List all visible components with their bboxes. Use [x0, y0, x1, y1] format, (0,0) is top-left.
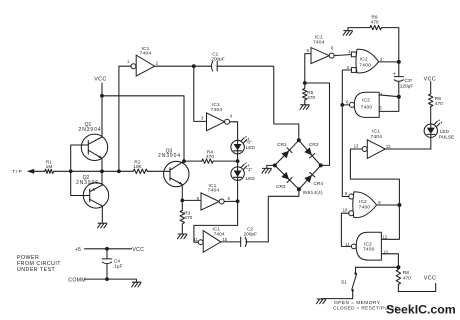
svg-text:13: 13 [354, 144, 359, 149]
node TIP input [12, 169, 45, 175]
ground bridge left [262, 168, 271, 173]
junction inverter1 input rail [117, 169, 121, 173]
capacitor C2 200pF [241, 227, 257, 247]
ground S1 [316, 299, 325, 304]
junction +5 node [105, 247, 109, 251]
resistor R6 470 [429, 94, 444, 107]
junction Q3 emitter node [180, 199, 184, 203]
svg-text:10K: 10K [133, 164, 142, 170]
wire gate1 output [379, 61, 399, 63]
wire LED1 to inverter4 output node [237, 180, 239, 201]
wire junction to R4 [184, 160, 202, 162]
power VCC label top left [94, 76, 106, 96]
svg-text:7404: 7404 [208, 188, 220, 194]
power VCC top right [424, 76, 436, 94]
svg-text:.1μF: .1μF [113, 264, 123, 269]
junction bridge bottom [297, 187, 301, 191]
junction bridge right [319, 163, 323, 167]
junction COMM node [105, 277, 109, 281]
resistor R3 470 [180, 211, 193, 224]
svg-text:PULSE: PULSE [439, 134, 454, 139]
junction emitters [100, 169, 104, 173]
wire emitter node to R3 [181, 200, 183, 210]
junction inverter1 output [192, 64, 196, 68]
svg-text:11: 11 [194, 237, 199, 242]
svg-text:C3*: C3* [405, 78, 413, 83]
wire R1 to node A [54, 170, 71, 172]
resistor R5 470 [303, 83, 316, 104]
svg-text:CR1: CR1 [277, 142, 287, 148]
wire VCC rail to Q3 collector [102, 96, 184, 161]
op-amp IC1 inverter 5-6 [307, 34, 335, 63]
svg-text:12: 12 [382, 234, 387, 239]
svg-text:+5: +5 [75, 247, 81, 253]
svg-text:120μF: 120μF [400, 84, 414, 89]
svg-text:12: 12 [386, 144, 391, 149]
svg-text:IC2: IC2 [362, 98, 370, 104]
op-amp IC1 inverter 9-8 [197, 183, 231, 210]
svg-text:R6: R6 [435, 96, 441, 102]
wire R8 to VCC [398, 283, 435, 291]
wire R9 to ground [348, 28, 370, 31]
wire emitter node to inverter4 input [182, 199, 201, 201]
wire inverter6 input to latch node [350, 149, 399, 239]
svg-text:VCC: VCC [132, 247, 144, 253]
node A junction [69, 169, 73, 173]
NAND gate IC2 pins 4,5,6 mirrored [346, 92, 383, 118]
svg-text:CR4: CR4 [313, 181, 323, 187]
wire C1 to bridge top [217, 66, 299, 140]
svg-text:LED: LED [246, 176, 256, 181]
wire C2 to bridge bottom [246, 189, 299, 242]
wire bridge right to R5 node [305, 83, 330, 165]
ground R3 [178, 234, 187, 239]
wire Q1 emitter down [101, 158, 103, 171]
ground Q2 [98, 223, 107, 228]
diode CR3 [276, 172, 292, 190]
op-amp IC1 inverter 11-10 [194, 226, 228, 252]
transistor Q2 2N3906 [76, 175, 109, 208]
wire inverter4 output [224, 200, 237, 202]
svg-text:R8: R8 [403, 270, 409, 276]
wire inverter3 output to gate1 pin1 [334, 55, 351, 56]
svg-text:470: 470 [403, 276, 411, 282]
resistor R1 [45, 159, 54, 173]
wire node A to Q1 base [71, 145, 89, 171]
svg-text:200pF: 200pF [244, 232, 257, 237]
ground COMM [132, 282, 141, 287]
svg-text:IN914(4): IN914(4) [303, 190, 323, 195]
wire bridge left to ground [267, 165, 275, 168]
wire node up to inverter3 input [305, 54, 311, 83]
diode CR4 [304, 172, 323, 187]
wire emitter node to R2 [71, 170, 134, 172]
wire drop to inverter2 input [194, 66, 207, 121]
diode CR2 [304, 142, 319, 158]
NAND gate IC2 pins 9,10,8 [343, 191, 382, 217]
transistor Q1 2N3904 [79, 122, 108, 160]
ground R5 [300, 105, 309, 110]
wire latch to inverter5 input [194, 201, 238, 242]
capacitor C3 120uF [393, 62, 413, 97]
wire inverter6 output [385, 148, 431, 150]
svg-text:IC2: IC2 [360, 57, 368, 63]
svg-text:VCC: VCC [424, 276, 436, 282]
svg-text:TIP: TIP [12, 169, 23, 175]
wire inverter5 output to C2 [221, 241, 241, 243]
svg-text:7404: 7404 [211, 107, 223, 113]
op-amp IC1 inverter 13-12 [354, 129, 392, 159]
svg-text:"1": "1" [246, 167, 252, 172]
junction bridge top [297, 138, 301, 142]
power COMM input [68, 278, 136, 284]
wire R3 to ground [181, 224, 183, 234]
LED "0" [231, 136, 256, 154]
wire gate2 output to rail [342, 104, 349, 106]
switch S1 [321, 267, 398, 298]
svg-text:470: 470 [307, 95, 315, 101]
power +5 input [75, 247, 144, 253]
svg-text:CR3: CR3 [276, 184, 286, 190]
junction inverter4 output [236, 199, 240, 203]
svg-text:S1: S1 [341, 279, 347, 285]
NAND gate IC2 pins 1,2,3 [347, 49, 383, 73]
svg-text:OPEN = MEMORY: OPEN = MEMORY [334, 300, 381, 306]
svg-text:470: 470 [371, 19, 379, 25]
resistor R8 470 [396, 267, 411, 291]
junction bridge left [273, 163, 277, 167]
svg-text:VCC: VCC [94, 76, 106, 82]
resistor R2 10K [133, 160, 147, 174]
wire Q2 collector down [101, 206, 103, 223]
svg-text:"0": "0" [246, 139, 252, 144]
svg-text:CR2: CR2 [309, 142, 319, 148]
junction R5 node [303, 81, 307, 85]
svg-text:UNDER TEST: UNDER TEST [17, 267, 56, 273]
op-amp IC1 inverter 3-4 [201, 102, 233, 131]
wire R6 to LED PULSE [430, 107, 432, 125]
text switch legend [333, 300, 398, 311]
wire LED0 to LED1 [237, 154, 239, 167]
LED PULSE [424, 119, 454, 139]
NAND gate IC2 pins 12,13,11 mirrored [345, 232, 388, 260]
wire gate2 pin5 [379, 97, 399, 112]
LED "1" [231, 162, 255, 181]
svg-text:1M: 1M [46, 164, 53, 170]
junction Q3 collector VCC R4 [182, 159, 186, 163]
diode bridge arms [275, 140, 321, 189]
text POWER FROM CIRCUIT UNDER TEST [17, 255, 61, 273]
wire Q1 collector to VCC rail [101, 96, 103, 137]
resistor R4 470 [202, 149, 215, 163]
junction VCC node [100, 94, 104, 98]
svg-text:7400: 7400 [361, 105, 373, 111]
svg-text:7404: 7404 [313, 39, 325, 45]
svg-text:10: 10 [343, 208, 348, 213]
svg-text:+: + [393, 71, 396, 77]
wire Q2 emitter up [101, 171, 103, 185]
svg-text:7400: 7400 [359, 205, 371, 211]
capacitor C1 200pF [211, 52, 224, 71]
junction gate2 output [340, 103, 344, 107]
svg-text:2N3904: 2N3904 [158, 153, 181, 159]
wire R9 feedback top [382, 28, 399, 62]
capacitor C4 .1uF [102, 249, 122, 279]
wire LED PULSE to inverter6 output [430, 137, 432, 149]
svg-text:7400: 7400 [359, 62, 371, 68]
svg-text:7404: 7404 [214, 232, 225, 237]
wire Q3 emitter down [181, 185, 183, 201]
wire inverter1 output to C1 [155, 65, 212, 67]
svg-text:2N3904: 2N3904 [79, 127, 102, 133]
svg-text:200pF: 200pF [211, 56, 224, 61]
junction latch output node [397, 203, 401, 207]
svg-text:470: 470 [206, 154, 214, 160]
wire R2 to Q3 base [147, 170, 170, 172]
wire gate2 pin4 [379, 95, 399, 97]
wire gate1 pin2 rail down to gate3 pin9 [342, 70, 351, 197]
wire gate4 pin13 to switch node [381, 254, 398, 267]
svg-text:7404: 7404 [370, 134, 382, 140]
op-amp IC1 inverter 1-2 [127, 46, 159, 76]
svg-text:2N3906: 2N3906 [76, 180, 99, 186]
resistor R9 470 [370, 15, 381, 30]
wire inverter2 output to LED 0 [230, 122, 238, 141]
svg-text:SeekIC.com: SeekIC.com [386, 303, 456, 317]
svg-text:IC1: IC1 [372, 129, 380, 135]
svg-text:10: 10 [223, 237, 228, 242]
svg-text:VCC: VCC [424, 76, 436, 82]
svg-text:IC2: IC2 [359, 199, 367, 205]
svg-text:7404: 7404 [140, 51, 152, 57]
svg-text:7400: 7400 [363, 246, 375, 252]
junction gate1 output [397, 60, 401, 64]
svg-text:COMM: COMM [68, 278, 86, 284]
transistor Q3 2N3904 [158, 148, 189, 186]
junction LED node [236, 159, 240, 163]
svg-text:LED: LED [440, 129, 450, 134]
svg-text:11: 11 [345, 242, 350, 247]
junction C3 bottom gate2 inputs [397, 95, 401, 99]
ground R9 [343, 31, 352, 36]
wire gate3 pin10 to gate4 output [341, 213, 351, 246]
svg-text:470: 470 [435, 101, 443, 107]
svg-text:470: 470 [184, 215, 192, 221]
svg-text:LED: LED [246, 145, 256, 150]
wire node A to Q2 base [71, 171, 90, 195]
diode CR1 [277, 142, 292, 158]
junction switch node [396, 265, 400, 269]
wire gate3 output [377, 204, 400, 206]
wire R4 to LED node [213, 160, 237, 162]
wire rail to inverter1 input [119, 66, 131, 171]
